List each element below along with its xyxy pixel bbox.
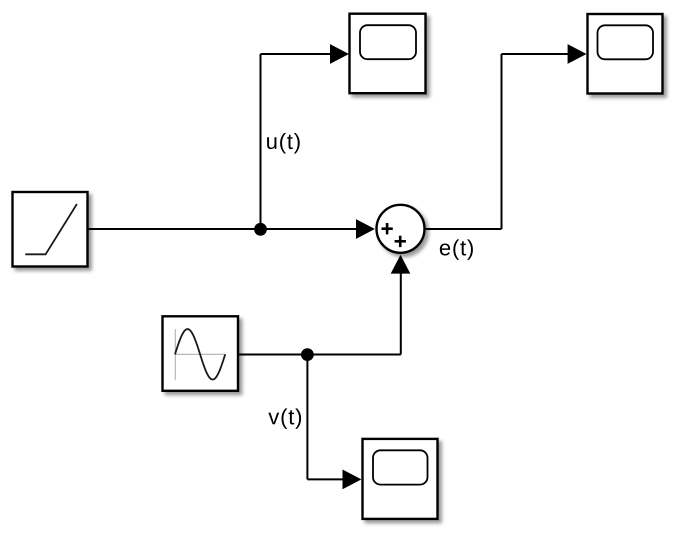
sine wave block (Sine Wave source) [163,316,239,391]
wire: branch up toward Scope1 [261,54,334,229]
arrowhead into Scope3 [343,470,362,490]
arrowhead into Scope2 [568,44,587,64]
scope block Scope2 (top right) [588,14,663,94]
sum block (circle with + +) [377,205,425,253]
wire: sine output to sum bottom input [238,272,401,355]
scope block Scope1 (top middle) [350,14,426,94]
ramp block (Ramp source) [13,192,88,267]
junction node: u(t) branch point [254,223,267,236]
label u(t) [267,133,300,153]
label v(t) [268,408,301,428]
wire: sum output to Scope2 [426,54,570,229]
arrowhead into sum bottom input [391,255,411,274]
wire: ramp output to sum left input [88,228,373,230]
wire: branch down toward Scope3 [307,355,345,480]
arrowhead into Scope1 [330,44,349,64]
arrowhead into sum left input [356,219,375,239]
scope block Scope3 (bottom) [363,439,438,519]
label e(t) [440,239,473,259]
junction node: v(t) branch point [301,348,314,361]
